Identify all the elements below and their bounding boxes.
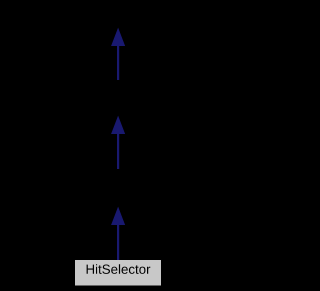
inheritance diagram: HitSelector class hierarchy (black background): [0, 0, 236, 291]
class box HitSelector: [75, 260, 161, 286]
inheritance arrow 2 (middle): [112, 117, 125, 169]
inheritance arrow 3 (bottom): [112, 208, 125, 260]
inheritance arrow 1 (top): [112, 29, 125, 80]
